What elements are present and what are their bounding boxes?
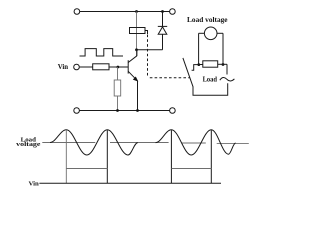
- svg-text:Vin: Vin: [58, 63, 68, 71]
- svg-text:Load: Load: [203, 75, 217, 83]
- svg-text:voltage: voltage: [16, 141, 40, 148]
- svg-text:Load voltage: Load voltage: [187, 15, 228, 24]
- svg-text:Vin: Vin: [29, 180, 40, 187]
